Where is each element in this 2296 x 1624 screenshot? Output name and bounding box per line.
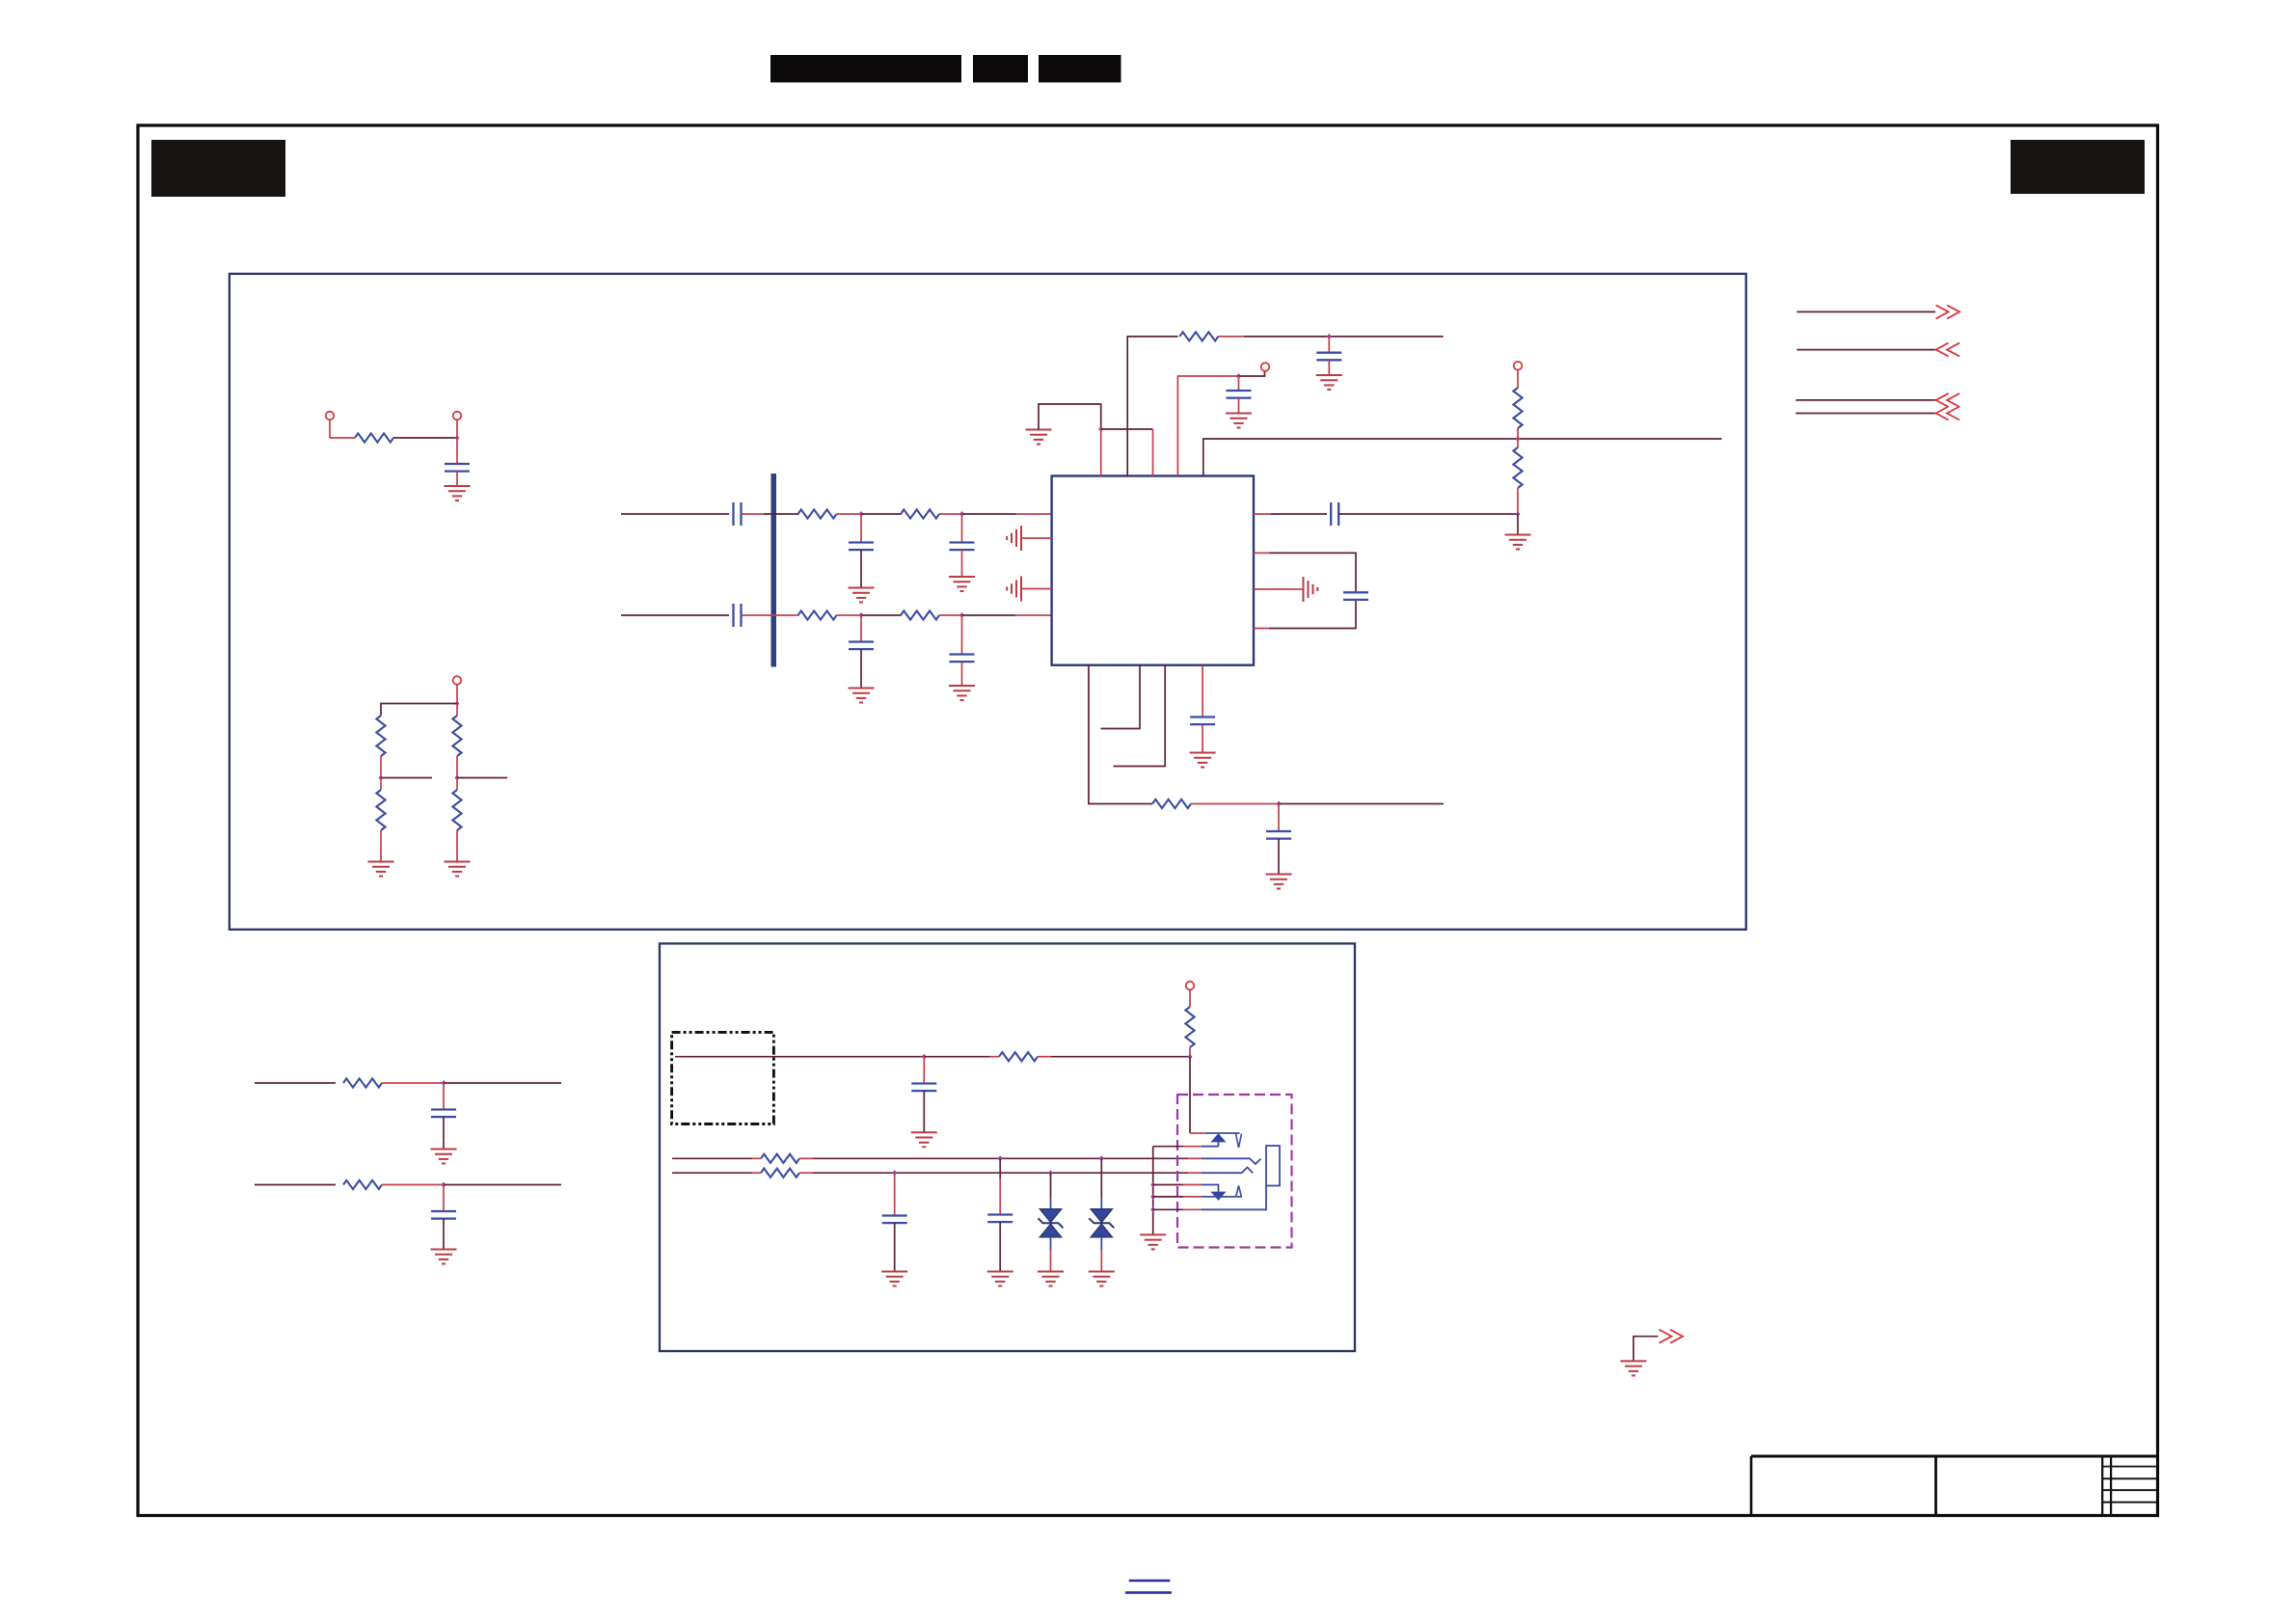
resistor (filter2)	[343, 1180, 382, 1189]
chassis ground (IC left pin 3)	[1007, 577, 1021, 602]
jack lower switch line	[1153, 1184, 1183, 1186]
chassis ground (IC right pin3)	[1304, 577, 1318, 602]
jack lower spring arrow	[1211, 1192, 1225, 1200]
wire	[444, 1184, 561, 1186]
wire IC right pin2/pin4 loop	[1254, 553, 1269, 628]
wire IC bottom pin2 stub	[1101, 665, 1141, 729]
jack plug body	[1266, 1146, 1280, 1186]
ground	[849, 689, 875, 703]
resistor (divider right lower)	[452, 790, 461, 830]
capacitor (audio L)	[999, 1158, 1001, 1178]
ground with arrow (net stub)	[1634, 1337, 1659, 1362]
wire to IC	[962, 614, 1016, 616]
terminal circle	[1261, 363, 1270, 371]
jack sleeve line	[1153, 1208, 1183, 1210]
terminal circle (divider top)	[453, 676, 462, 685]
title block divider	[1934, 1456, 1937, 1516]
wire IC pin top5 + long net right	[1203, 439, 1722, 476]
connector outline (dash-dot box)	[672, 1032, 774, 1123]
node junction (audio R cap)	[892, 1170, 897, 1176]
resistor (divider left lower)	[376, 790, 385, 830]
jack L contact line	[1188, 1157, 1202, 1159]
ground	[445, 862, 471, 877]
wire	[1517, 428, 1519, 439]
wire	[456, 438, 458, 463]
wire	[382, 1082, 444, 1084]
ground	[445, 486, 471, 501]
wire	[813, 1172, 1188, 1174]
wire	[961, 662, 963, 686]
wire	[1517, 488, 1519, 514]
wire	[1101, 428, 1153, 430]
wire	[1100, 1236, 1102, 1250]
capacitor (loop)	[1343, 592, 1368, 600]
wire	[752, 1157, 761, 1159]
wire	[837, 513, 862, 515]
resistor (feedback)	[1152, 799, 1191, 808]
resistor (line1 first)	[798, 509, 837, 518]
jack contact notch V	[1236, 1134, 1242, 1149]
node junction	[1327, 334, 1332, 339]
wire	[799, 1172, 813, 1174]
wire	[456, 420, 458, 439]
terminal circle (pullup top)	[1186, 982, 1195, 990]
top section box	[230, 274, 1746, 930]
wire	[837, 614, 862, 616]
TVS diode D2	[1089, 1209, 1114, 1237]
wire	[1021, 588, 1052, 590]
node junction	[455, 775, 460, 781]
ground	[1316, 375, 1342, 390]
wire IC right pin3	[1254, 588, 1304, 590]
resistor (line2 first)	[798, 610, 837, 619]
wire IC pin top4 net	[1177, 376, 1238, 476]
wire	[1279, 803, 1444, 805]
ground	[849, 588, 875, 603]
node junction	[859, 612, 864, 618]
node junction	[859, 511, 864, 517]
wire (filter2 line)	[255, 1184, 336, 1186]
wire	[1050, 1173, 1052, 1198]
wire	[742, 614, 799, 616]
ground	[431, 1250, 457, 1264]
wire (filter1 line)	[255, 1082, 336, 1084]
wire IC pin top1	[1100, 429, 1102, 476]
top-right redaction box	[2011, 140, 2145, 194]
resistor (chain lower)	[1513, 447, 1522, 488]
wire IC bottom pin1	[1089, 665, 1152, 804]
title block mini-table verticals	[2102, 1456, 2111, 1516]
capacitor (supply decoupling)	[1328, 337, 1330, 352]
resistor (detect series)	[999, 1052, 1038, 1061]
wire	[939, 614, 962, 616]
node junction (TVS2)	[1099, 1155, 1104, 1161]
node junction	[379, 775, 384, 781]
ground	[1226, 414, 1252, 428]
wire	[861, 614, 902, 616]
node junction (stem 2)	[1150, 1194, 1155, 1200]
net arrow in (second)	[1796, 349, 1935, 351]
ground	[949, 686, 975, 700]
terminal circle J? (left)	[326, 412, 335, 420]
wire (audio L)	[672, 1157, 752, 1159]
wire into jack	[1189, 1057, 1191, 1133]
node junction	[1277, 801, 1282, 807]
jack tip spring arrow	[1211, 1134, 1225, 1142]
series capacitor	[734, 604, 742, 627]
wire	[443, 1219, 445, 1250]
ground	[1140, 1234, 1166, 1249]
wire	[799, 1157, 813, 1159]
wire stub	[457, 777, 507, 779]
title block mini-table rows	[2102, 1467, 2156, 1502]
top-left redaction box	[151, 140, 285, 197]
wire	[923, 1091, 925, 1132]
ground stem	[1152, 1147, 1154, 1234]
wire	[1517, 439, 1519, 447]
footer mark line 1	[1129, 1580, 1171, 1583]
wire	[443, 1117, 445, 1149]
node junction	[959, 511, 964, 517]
net arrow in (third)	[1796, 399, 1935, 401]
ground	[949, 577, 975, 591]
bottom section box	[660, 943, 1355, 1351]
wire	[1051, 1056, 1190, 1058]
node junction	[1188, 1054, 1193, 1060]
footer mark line 2	[1125, 1591, 1172, 1594]
resistor (filter1)	[343, 1078, 382, 1087]
node junction	[1098, 426, 1103, 432]
wire	[999, 1222, 1001, 1271]
jack switch common line	[1153, 1146, 1183, 1148]
ground	[1089, 1272, 1115, 1286]
node junction	[1516, 511, 1521, 517]
terminal circle (right)	[453, 412, 462, 420]
wire	[764, 513, 799, 515]
wire	[1517, 514, 1519, 535]
wire	[621, 614, 729, 616]
wire	[1189, 989, 1191, 1007]
terminal circle (chain top)	[1514, 362, 1523, 370]
wire	[752, 1172, 761, 1174]
capacitor (line2 node2)	[961, 615, 963, 654]
ground	[1190, 753, 1216, 768]
wire	[1038, 1056, 1051, 1058]
capacitor (upper-left RC)	[445, 464, 470, 472]
node junction (TVS1)	[1048, 1170, 1053, 1176]
node junction	[1516, 436, 1521, 442]
wire	[813, 1157, 1188, 1159]
wire (audio R)	[672, 1172, 752, 1174]
IC U1 body	[1052, 476, 1254, 665]
node junction	[959, 612, 964, 618]
wire	[1039, 404, 1101, 430]
jack lower contact line	[1153, 1196, 1183, 1198]
wire	[1100, 1158, 1102, 1198]
TVS diode D1	[1039, 1209, 1064, 1237]
resistor (line1 second)	[901, 509, 939, 518]
wire	[1050, 1236, 1052, 1250]
net arrow in (fourth)	[1796, 413, 1935, 415]
wire	[456, 472, 458, 486]
wire	[894, 1223, 896, 1271]
node junction	[922, 1054, 927, 1060]
jack tip line (from pullup)	[1205, 1132, 1240, 1134]
wire stub	[381, 777, 432, 779]
title block left edge	[1750, 1456, 1753, 1516]
wire	[621, 513, 729, 515]
page border frame	[138, 125, 2158, 1516]
ground	[368, 862, 394, 877]
wire	[961, 550, 963, 577]
series capacitor	[734, 502, 742, 526]
resistor (audio R)	[761, 1169, 799, 1177]
resistor (chain upper)	[1513, 388, 1522, 428]
title block top line	[1751, 1455, 2156, 1458]
wire	[1202, 724, 1203, 752]
node junction	[442, 1080, 446, 1086]
capacitor (line1 node2)	[961, 514, 963, 542]
node junction (stem 1)	[1150, 1182, 1155, 1188]
wire IC pin top2 + supply corner	[1127, 337, 1177, 476]
node junction	[1236, 373, 1241, 379]
capacitor (line2 node1)	[860, 615, 862, 641]
wire IC right pin1	[1254, 513, 1271, 515]
ground	[1620, 1361, 1646, 1375]
ground	[431, 1150, 457, 1164]
wire	[1189, 1047, 1191, 1057]
wire	[444, 1082, 561, 1084]
node junction (audio L cap)	[998, 1155, 1003, 1161]
resistor (pullup)	[1185, 1007, 1194, 1047]
ground	[1505, 535, 1531, 550]
wire	[380, 756, 382, 778]
wire	[1338, 513, 1518, 515]
jack box (purple dashed)	[1177, 1095, 1292, 1248]
wire	[861, 513, 902, 515]
capacitor (audio R)	[894, 1173, 896, 1215]
wire	[1244, 336, 1444, 338]
wire	[1278, 839, 1280, 875]
wire IC pin top3	[1152, 429, 1154, 476]
net arrow out (top)	[1796, 311, 1935, 312]
wire	[924, 1056, 989, 1058]
capacitor (filter1)	[443, 1083, 445, 1109]
resistor (audio L)	[761, 1154, 799, 1163]
wire	[456, 685, 458, 704]
wire	[860, 550, 862, 587]
ground	[881, 1272, 907, 1286]
wire to IC	[962, 513, 1016, 515]
resistor (divider right upper)	[452, 716, 461, 756]
node junction	[455, 701, 460, 707]
node junction	[442, 1182, 446, 1188]
wire	[989, 1056, 999, 1058]
capacitor (line1 node1)	[860, 514, 862, 542]
wire (detect line)	[675, 1056, 924, 1058]
wire	[456, 756, 458, 778]
bus bar	[771, 474, 777, 667]
wire	[456, 704, 458, 717]
wire	[860, 649, 862, 688]
capacitor (filter2)	[443, 1185, 445, 1211]
ground (top-left of IC)	[1026, 430, 1052, 445]
wire	[329, 420, 331, 439]
wire	[330, 437, 355, 439]
node junction	[455, 435, 460, 441]
resistor (supply top)	[1179, 332, 1218, 340]
resistor (upper-left RC)	[355, 433, 393, 442]
wire	[456, 778, 458, 862]
resistor (divider left upper)	[376, 716, 385, 756]
wire	[382, 1184, 444, 1186]
wire	[380, 778, 382, 862]
ground	[1038, 1272, 1064, 1286]
capacitor (detect)	[923, 1057, 925, 1083]
wire	[1328, 360, 1330, 375]
capacitor (pin4 bypass)	[1238, 376, 1240, 391]
series capacitor (output)	[1331, 502, 1338, 526]
wire IC bottom pin3 stub	[1114, 665, 1166, 767]
wire	[393, 437, 457, 439]
capacitor (IC bottom pin4)	[1202, 665, 1203, 717]
wire to terminal	[1239, 371, 1265, 376]
ground	[1266, 875, 1292, 889]
wire	[1191, 803, 1279, 805]
header redaction bar 2	[973, 55, 1028, 83]
jack contact notch A	[1236, 1186, 1242, 1198]
wire	[742, 513, 765, 515]
jack R contact line	[1188, 1172, 1202, 1174]
ground	[911, 1132, 937, 1147]
chassis ground (IC left pin 2)	[1007, 526, 1021, 551]
wire	[1021, 537, 1052, 539]
wire	[1218, 336, 1244, 338]
ground	[987, 1272, 1013, 1286]
header redaction bar 3	[1039, 55, 1121, 83]
wire	[1517, 370, 1519, 389]
capacitor (feedback)	[1278, 804, 1280, 831]
wire	[381, 704, 457, 717]
node junction (stem 3)	[1150, 1206, 1155, 1212]
wire	[1238, 398, 1240, 414]
resistor (line2 second)	[901, 610, 939, 619]
wire	[939, 513, 962, 515]
header redaction bar 1	[770, 55, 961, 83]
